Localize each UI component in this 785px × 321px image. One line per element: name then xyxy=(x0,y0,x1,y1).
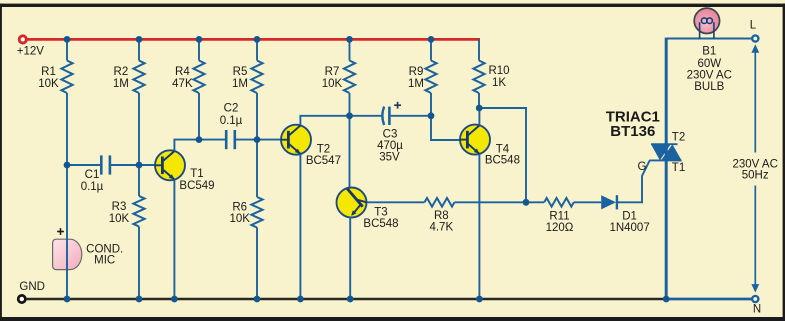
svg-text:47K: 47K xyxy=(172,78,193,90)
node GND terminal xyxy=(18,295,25,302)
svg-text:T3: T3 xyxy=(374,206,387,218)
svg-text:T1: T1 xyxy=(672,162,685,174)
resistor R1 xyxy=(66,39,68,60)
svg-text:R4: R4 xyxy=(175,66,190,78)
svg-text:230V AC: 230V AC xyxy=(687,70,732,82)
resistor R2 xyxy=(138,39,140,60)
svg-text:T2: T2 xyxy=(672,132,685,144)
ac source annotation 230V AC 50Hz xyxy=(751,44,759,53)
svg-text:L: L xyxy=(750,20,757,32)
transistor T1 BC549 xyxy=(155,150,185,180)
wire triac to N xyxy=(666,298,752,301)
wire R11 to D1 xyxy=(574,201,601,203)
transistor T2 BC547 xyxy=(281,125,311,155)
svg-text:R8: R8 xyxy=(434,210,449,222)
capacitor C2 xyxy=(225,130,228,149)
diode D1 1N4007 xyxy=(601,195,616,209)
wire T2 emitter to ground xyxy=(299,154,301,299)
wire T1 collector to C2 xyxy=(174,140,225,151)
svg-text:D1: D1 xyxy=(622,210,637,222)
resistor R7 xyxy=(349,39,351,60)
resistor R8 xyxy=(425,198,455,207)
capacitor C1 xyxy=(100,155,103,174)
wire C1 node to ground through mic xyxy=(66,165,68,299)
svg-text:C2: C2 xyxy=(224,103,239,115)
node N terminal xyxy=(752,296,758,302)
svg-text:R6: R6 xyxy=(232,201,247,213)
svg-text:120Ω: 120Ω xyxy=(546,222,574,234)
wire triac main vertical xyxy=(665,38,668,299)
svg-text:T4: T4 xyxy=(496,143,510,155)
resistor R11 xyxy=(526,201,544,203)
svg-text:R2: R2 xyxy=(114,66,129,78)
svg-text:10K: 10K xyxy=(109,213,130,225)
svg-text:BC548: BC548 xyxy=(485,155,520,167)
svg-text:10K: 10K xyxy=(322,78,343,90)
svg-text:T1: T1 xyxy=(190,168,203,180)
svg-text:C3: C3 xyxy=(383,129,398,141)
svg-text:10K: 10K xyxy=(229,213,250,225)
svg-text:60W: 60W xyxy=(697,58,721,70)
wire C1 to T1 base xyxy=(110,164,155,166)
wire node to T4 base xyxy=(431,116,461,140)
resistor R9 xyxy=(430,39,432,60)
svg-text:BT136: BT136 xyxy=(610,123,655,140)
wire ground rail xyxy=(26,298,666,301)
svg-text:R11: R11 xyxy=(549,210,569,222)
svg-text:35V: 35V xyxy=(379,152,400,164)
svg-text:N: N xyxy=(753,304,761,316)
svg-text:+12V: +12V xyxy=(17,46,45,58)
svg-text:1M: 1M xyxy=(232,78,248,90)
wire R2 to node A xyxy=(138,93,140,165)
svg-text:BC548: BC548 xyxy=(363,218,398,230)
wire C2 to T2 base xyxy=(235,139,281,141)
svg-text:B1: B1 xyxy=(702,46,716,58)
wire R1 to C1 node xyxy=(66,93,68,165)
wire T2 collector to C3 xyxy=(300,116,382,126)
svg-text:G: G xyxy=(638,161,647,173)
svg-text:0.1µ: 0.1µ xyxy=(220,115,243,127)
resistor R3 xyxy=(138,165,140,196)
node +12V terminal xyxy=(19,36,26,43)
svg-text:R9: R9 xyxy=(409,66,424,78)
svg-text:R7: R7 xyxy=(325,66,340,78)
svg-text:C1: C1 xyxy=(85,169,100,181)
wire T3 collector to R8 xyxy=(367,201,425,203)
wire R10 to T4 collector node xyxy=(478,93,480,108)
resistor R4 xyxy=(198,39,200,60)
wire D1 to TRIAC gate xyxy=(618,160,650,202)
lamp B1 60W bulb xyxy=(694,8,719,33)
transistor T4 BC548 xyxy=(460,125,490,155)
resistor R6 xyxy=(256,140,258,197)
svg-text:R1: R1 xyxy=(41,66,56,78)
svg-text:1N4007: 1N4007 xyxy=(609,222,649,234)
condenser mic MIC1 xyxy=(53,239,82,269)
wire triac to bulb and L xyxy=(666,38,752,40)
triac TRIAC1 BT136 xyxy=(651,143,678,145)
svg-text:0.1µ: 0.1µ xyxy=(81,181,104,193)
wire R5 to node B xyxy=(256,93,258,140)
svg-text:GND: GND xyxy=(19,281,45,293)
wire C3 to R9 node xyxy=(391,115,431,117)
svg-text:BULB: BULB xyxy=(694,81,724,93)
resistor R5 xyxy=(256,39,258,60)
svg-text:T2: T2 xyxy=(317,144,330,156)
svg-text:50Hz: 50Hz xyxy=(742,169,769,181)
svg-text:BC549: BC549 xyxy=(179,180,214,192)
wire R7 to T2 collector node xyxy=(349,93,351,116)
wire T1 emitter to ground xyxy=(173,180,175,299)
wire node to T3 base xyxy=(349,116,351,190)
junction dots ground rail xyxy=(64,296,71,303)
svg-text:1K: 1K xyxy=(492,77,506,89)
wire T4 collector up xyxy=(478,108,480,125)
junction dots middle nodes xyxy=(64,162,71,169)
svg-text:10K: 10K xyxy=(38,78,59,90)
wire R3 to ground xyxy=(138,227,140,300)
node L terminal xyxy=(752,35,758,41)
svg-text:4.7K: 4.7K xyxy=(429,221,453,233)
resistor R10 xyxy=(478,39,480,60)
transistor T3 BC548 xyxy=(337,188,367,218)
svg-text:R3: R3 xyxy=(112,201,127,213)
wire T4 emitter to ground xyxy=(478,154,480,299)
wire R8 to R11 node xyxy=(455,201,527,203)
wire R6 to ground xyxy=(256,228,258,300)
wire R1 node to C1 xyxy=(67,164,101,166)
svg-text:470µ: 470µ xyxy=(377,140,403,152)
svg-text:R5: R5 xyxy=(233,66,248,78)
svg-text:MIC: MIC xyxy=(94,254,115,266)
wire R9 down xyxy=(430,93,432,116)
wire T4 collector node right and down to R11 node xyxy=(479,108,526,202)
capacitor C3 470u 35V xyxy=(382,107,384,125)
svg-text:1M: 1M xyxy=(408,78,424,90)
junction dots top rail xyxy=(64,36,71,43)
svg-text:1M: 1M xyxy=(113,78,129,90)
wire R4 to C2 line xyxy=(198,93,200,140)
svg-text:BC547: BC547 xyxy=(306,155,341,167)
wire +12V rail (red) xyxy=(27,38,480,41)
svg-text:R10: R10 xyxy=(488,65,509,77)
wire T3 emitter to ground xyxy=(349,217,351,300)
